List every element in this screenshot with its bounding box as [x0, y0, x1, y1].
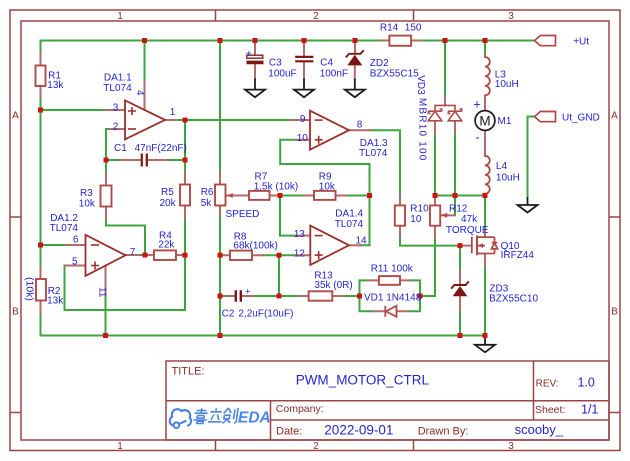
svg-text:B: B [12, 307, 19, 318]
svg-text:C3: C3 [269, 57, 282, 68]
junction pin6 node [38, 243, 43, 248]
svg-text:IRFZ44: IRFZ44 [501, 250, 535, 261]
junction C1 right node [183, 158, 188, 163]
port flag Ut_GND [535, 112, 556, 122]
op-amp DA1.4 [310, 226, 349, 265]
svg-text:SPEED: SPEED [226, 209, 260, 220]
pin C4 leads [303, 41, 305, 79]
svg-text:(10k): (10k) [23, 277, 35, 301]
wire node to R9 left [280, 195, 304, 197]
pin DA1.4 pin13 [297, 235, 311, 237]
svg-text:100nF: 100nF [320, 68, 348, 79]
svg-text:3: 3 [508, 11, 514, 22]
svg-text:13k: 13k [47, 80, 64, 91]
pin ZD2 leads [354, 41, 356, 79]
wire to R2 top [40, 245, 42, 267]
pin R6 wiper to R7 [227, 195, 249, 197]
potentiometer R6 body [215, 185, 226, 206]
svg-text:1,5k (10k): 1,5k (10k) [254, 181, 298, 192]
wire top power rail left [41, 40, 382, 42]
svg-text:10k: 10k [319, 181, 336, 192]
junction R4-R5 node [183, 253, 188, 258]
svg-text:150: 150 [405, 23, 422, 34]
resistor R8 body [230, 251, 252, 260]
diode VD1 [385, 306, 396, 317]
title block [166, 361, 609, 440]
svg-text:R6: R6 [201, 187, 214, 198]
svg-text:ZD2: ZD2 [370, 58, 389, 69]
resistor R13 body [309, 291, 333, 300]
wire C1 left lead [106, 159, 122, 161]
svg-text:1: 1 [170, 107, 176, 118]
svg-text:TL074: TL074 [103, 83, 132, 94]
svg-text:13k: 13k [47, 295, 64, 306]
svg-text:2: 2 [313, 11, 319, 22]
junction C3 on +V rail [253, 38, 258, 43]
resistor R5 body [180, 185, 190, 206]
wire R12 wiper up [454, 196, 456, 216]
svg-text:+: + [473, 97, 481, 112]
pin DA1.4 pin14 out [349, 244, 361, 246]
resistor R14 body [389, 36, 411, 46]
pin R2 leads [40, 267, 42, 313]
junction R8-pin12 node [277, 253, 282, 258]
wire pin11 down [105, 295, 107, 336]
svg-text:1/1: 1/1 [581, 403, 598, 417]
op-amp DA1.1 [125, 100, 165, 139]
resistor R9 body [314, 191, 336, 200]
svg-text:10uH: 10uH [496, 172, 520, 183]
wire node to pin3 [41, 109, 106, 111]
wire C2 left lead [220, 295, 228, 297]
junction R13-VD1 node [357, 294, 362, 299]
ground under ZD2 [345, 79, 365, 98]
svg-text:1: 1 [117, 11, 123, 22]
pin DA1.2 pin6 [66, 244, 86, 246]
svg-text:VD1 1N4148: VD1 1N4148 [364, 292, 422, 303]
svg-text:BZX55C15: BZX55C15 [370, 68, 419, 79]
arrow R12 wiper [441, 213, 447, 218]
svg-text:+: + [245, 287, 251, 298]
junction Q10 gate node [458, 243, 463, 248]
pin VD3 center [444, 96, 446, 105]
wire R6 top column [219, 41, 221, 173]
capacitor C2 plates [236, 290, 241, 302]
junction R12 wiper node [453, 193, 458, 198]
junction C1 left node [104, 158, 109, 163]
svg-text:M: M [479, 113, 490, 128]
svg-text:C1: C1 [114, 143, 127, 154]
svg-text:14: 14 [355, 236, 367, 247]
svg-text:TL074: TL074 [50, 223, 79, 234]
junction pin4 on +V rail [142, 38, 147, 43]
junction C2-R13 node [277, 294, 282, 299]
pin R1 leads [40, 53, 42, 99]
ground Ut_GND [518, 197, 538, 213]
pin DA1.1 pin4 [144, 81, 146, 109]
svg-text:3: 3 [113, 102, 119, 113]
wire node down to C1 right [184, 120, 186, 160]
inductor L3 [485, 57, 490, 95]
wire L3 top [484, 41, 486, 56]
wire R8 left [220, 254, 223, 256]
svg-text:B: B [611, 307, 618, 318]
pin DA1.3 pin10 [296, 139, 310, 141]
svg-text:8: 8 [357, 119, 363, 130]
pin R8 leads [223, 254, 264, 256]
wire R12 bottom to VD1 node [420, 238, 435, 296]
wire C2 right to node [253, 295, 279, 297]
junction C4 on +V rail [302, 38, 307, 43]
junction R7-R9-pin13 node [278, 193, 283, 198]
wire pin2 to C1 left to R3 [106, 129, 109, 174]
capacitor C4 plates [295, 57, 313, 61]
svg-text:+Ut: +Ut [573, 37, 589, 48]
junction ZD2 on +V rail [353, 38, 358, 43]
wire node to R13 [279, 295, 299, 297]
svg-text:7: 7 [130, 247, 136, 258]
pin VD1 leads [373, 310, 409, 312]
resistor R11 body [379, 276, 400, 285]
pin R13 leads [299, 295, 344, 297]
wire R1 top [40, 41, 42, 53]
wire R5 node down and across to pin5 [65, 255, 186, 310]
pin C2 leads [228, 295, 254, 297]
wire torque rail [435, 195, 485, 197]
wire VD1 box top branch [360, 280, 421, 296]
svg-text:3: 3 [508, 441, 514, 452]
svg-text:TL074: TL074 [335, 219, 364, 230]
wire R5 bottom to node [184, 218, 186, 255]
pin L4 bottom [484, 194, 486, 196]
svg-text:Date:: Date: [276, 425, 302, 437]
pin R5 leads [184, 173, 186, 219]
pin R10 leads [399, 194, 401, 237]
mosfet Q10 [472, 235, 498, 255]
pin ZD3 leads [459, 270, 461, 310]
wire R10 bottom to gate node [400, 237, 460, 246]
wire node to pin6 [41, 244, 67, 246]
inductor L4 [485, 156, 490, 194]
pin L3 leads [484, 55, 486, 111]
pin C1 leads [122, 159, 166, 161]
wire pin1 to pin9 [185, 119, 291, 121]
svg-text:2: 2 [313, 441, 319, 452]
svg-text:Drawn By:: Drawn By: [418, 425, 469, 437]
junction ZD3 on ground rail [458, 333, 463, 338]
resistor R3 body [101, 186, 112, 207]
wire VD3 center up [444, 41, 446, 97]
svg-text:20k: 20k [160, 198, 177, 209]
svg-text:M1: M1 [498, 116, 512, 127]
wire left rail down [40, 110, 42, 245]
op-amp DA1.3 [310, 111, 349, 150]
svg-text:10: 10 [297, 133, 309, 144]
pin Q10 gate [460, 245, 472, 247]
logo JLC EDA [170, 408, 271, 428]
wire top power rail right [421, 40, 534, 42]
svg-text:R5: R5 [161, 187, 174, 198]
junction R12 top node [433, 193, 438, 198]
pin DA1.3 pin9 [291, 119, 310, 121]
svg-text:TL074: TL074 [359, 148, 388, 159]
resistor R2 body [36, 279, 46, 301]
wire node down to pin13 [280, 196, 297, 236]
svg-text:REV:: REV: [536, 378, 559, 389]
wire R3 bottom jog to DA1.2 out [106, 219, 145, 256]
wire C1 right lead [166, 159, 185, 161]
junction VD3 on +Ut rail [443, 38, 448, 43]
pin DA1.2 pin7 out [126, 254, 140, 256]
junction C2 left node [218, 294, 223, 299]
wire gate node down to ZD3 [459, 246, 461, 270]
junction pin11 on ground rail [103, 333, 108, 338]
wire pin8 to R10 top [370, 130, 400, 194]
wire R8 right to node [263, 254, 279, 256]
svg-text:Sheet:: Sheet: [535, 404, 565, 416]
junction R6-R8 node [218, 253, 223, 258]
wire pin4 power [144, 41, 146, 82]
svg-text:R14: R14 [380, 23, 399, 34]
pin DA1.2 pin11 [105, 266, 107, 295]
svg-text:35k (0R): 35k (0R) [314, 280, 352, 291]
wire node down to C2 right [278, 255, 280, 296]
pin R12 leads [434, 196, 436, 239]
svg-text:Company:: Company: [276, 403, 324, 415]
ground under C4 [294, 79, 314, 98]
resistor R4 body [154, 250, 176, 260]
wire source down to ground rail [484, 266, 486, 336]
svg-text:47nF(22nF): 47nF(22nF) [135, 143, 187, 154]
wire ZD3 bottom to rail [459, 310, 461, 336]
wire pin10 feedback [280, 140, 369, 196]
wire R6 bottom to R8 node [219, 216, 221, 256]
junction C2 column on ground rail [218, 333, 223, 338]
wire R1 bottom to node [40, 98, 42, 110]
wire R9 right to node [347, 195, 370, 197]
svg-text:VD3: VD3 [415, 75, 426, 95]
dual schottky VD3 [428, 104, 462, 120]
wire VD1 box bottom branch [360, 296, 421, 311]
svg-text:6: 6 [73, 235, 79, 246]
svg-text:4: 4 [134, 90, 145, 96]
junction L3 on +Ut rail [483, 38, 488, 43]
svg-text:PWM_MOTOR_CTRL: PWM_MOTOR_CTRL [296, 372, 430, 387]
svg-text:R11 100k: R11 100k [371, 263, 414, 274]
junction R1 bottom node [38, 108, 43, 113]
svg-text:A: A [12, 111, 19, 122]
pin R9 leads [304, 195, 347, 197]
capacitor C1 plates [142, 154, 147, 167]
svg-text:L4: L4 [496, 161, 508, 172]
svg-text:scooby_: scooby_ [515, 422, 564, 437]
svg-text:+: + [246, 49, 252, 60]
wire C2 node down to ground rail [219, 296, 221, 336]
svg-text:10: 10 [410, 214, 422, 225]
pin R12 wiper [442, 214, 456, 216]
svg-text:47k: 47k [461, 214, 478, 225]
wire R2 bottom [40, 313, 42, 336]
wire node to pin12 [279, 254, 296, 256]
svg-text:10uH: 10uH [495, 79, 519, 90]
pin DA1.1 pin3 [105, 109, 125, 111]
wire Ut_GND to ground [528, 117, 535, 198]
junction L4-drain node [483, 193, 488, 198]
wire R13 right to node [343, 295, 360, 297]
potentiometer R12 body [430, 205, 440, 225]
svg-text:2,2uF(10uF): 2,2uF(10uF) [238, 308, 293, 319]
svg-text:10k: 10k [79, 198, 96, 209]
svg-text:MBR10 100: MBR10 100 [417, 98, 428, 162]
junction Q10 source on ground rail [483, 333, 488, 338]
junction R9-pin10 node [367, 193, 372, 198]
svg-text:68k(100k): 68k(100k) [233, 240, 277, 251]
wire VD3 right anode down [454, 133, 456, 196]
svg-text:5: 5 [72, 256, 78, 267]
junction DA1.1 output node [183, 118, 188, 123]
svg-text:12: 12 [294, 249, 306, 260]
wire bottom ground rail [41, 335, 486, 337]
wire node down to pin14 [361, 196, 370, 246]
wire VD3 left anode down [434, 133, 436, 196]
pin R14 leads [381, 40, 421, 42]
svg-text:100uF: 100uF [268, 68, 296, 79]
svg-text:Ut_GND: Ut_GND [562, 113, 600, 124]
pin DA1.2 pin5 [65, 265, 86, 267]
svg-text:1: 1 [117, 441, 123, 452]
pin DA1.4 pin12 [296, 254, 310, 256]
svg-text:2022-09-01: 2022-09-01 [324, 423, 393, 438]
pin R7 right [270, 195, 281, 197]
svg-text:1.0: 1.0 [578, 376, 595, 390]
motor M1 [475, 111, 495, 131]
ground under C3 [245, 79, 265, 98]
resistor R10 body [395, 205, 405, 225]
pin VD3 anodes [435, 121, 455, 133]
wire R7 right to node [270, 195, 280, 197]
svg-text:R10: R10 [410, 203, 429, 214]
svg-text:-: - [475, 130, 479, 145]
svg-text:5k: 5k [201, 198, 213, 209]
svg-text:EDA: EDA [238, 410, 271, 427]
pin R3 leads [105, 174, 107, 219]
junction VD1-R12 node [418, 294, 423, 299]
svg-text:9: 9 [300, 114, 306, 125]
arrow R6 wiper [227, 193, 233, 198]
svg-text:C2: C2 [222, 308, 235, 319]
svg-text:11: 11 [97, 287, 108, 298]
pin DA1.1 pin1 out [165, 119, 176, 121]
wire R8 node down to C2 node [219, 255, 221, 296]
svg-text:A: A [611, 111, 618, 122]
svg-text:R12: R12 [449, 203, 468, 214]
pin R4 leads [145, 254, 185, 256]
op-amp DA1.2 [86, 235, 126, 276]
zener ZD2 [346, 50, 364, 57]
ground bottom rail [475, 336, 495, 352]
resistor R1 body [36, 66, 46, 87]
pin R11 leads [369, 279, 410, 281]
capacitor C3 plates polarized [247, 55, 263, 58]
wire drain up to torque rail [484, 196, 486, 231]
junction DA1.2 output node [143, 253, 148, 258]
junction R6 on +V rail [218, 38, 223, 43]
svg-text:BZX55C10: BZX55C10 [489, 293, 538, 304]
port flag +Ut [535, 36, 556, 46]
resistor R7 body [249, 191, 270, 200]
svg-text:TITLE:: TITLE: [172, 365, 205, 377]
svg-text:TORQUE: TORQUE [446, 225, 489, 236]
svg-text:C4: C4 [320, 57, 333, 68]
wire C1 right to R5 [184, 160, 186, 173]
svg-text:13: 13 [294, 229, 306, 240]
svg-text:2: 2 [113, 121, 119, 132]
wire DA1.2 out to R4 [139, 254, 145, 256]
svg-text:22k: 22k [158, 239, 175, 250]
pin C3 leads [254, 41, 256, 79]
zener ZD3 [451, 281, 469, 288]
pin DA1.3 pin8 out [349, 129, 370, 131]
pin R6 leads [219, 173, 221, 216]
pin DA1.1 pin2 [109, 128, 125, 130]
pin Q10 drain source [484, 230, 486, 266]
pin motor to L4 [484, 130, 486, 155]
wire pin1 output node [176, 119, 185, 121]
